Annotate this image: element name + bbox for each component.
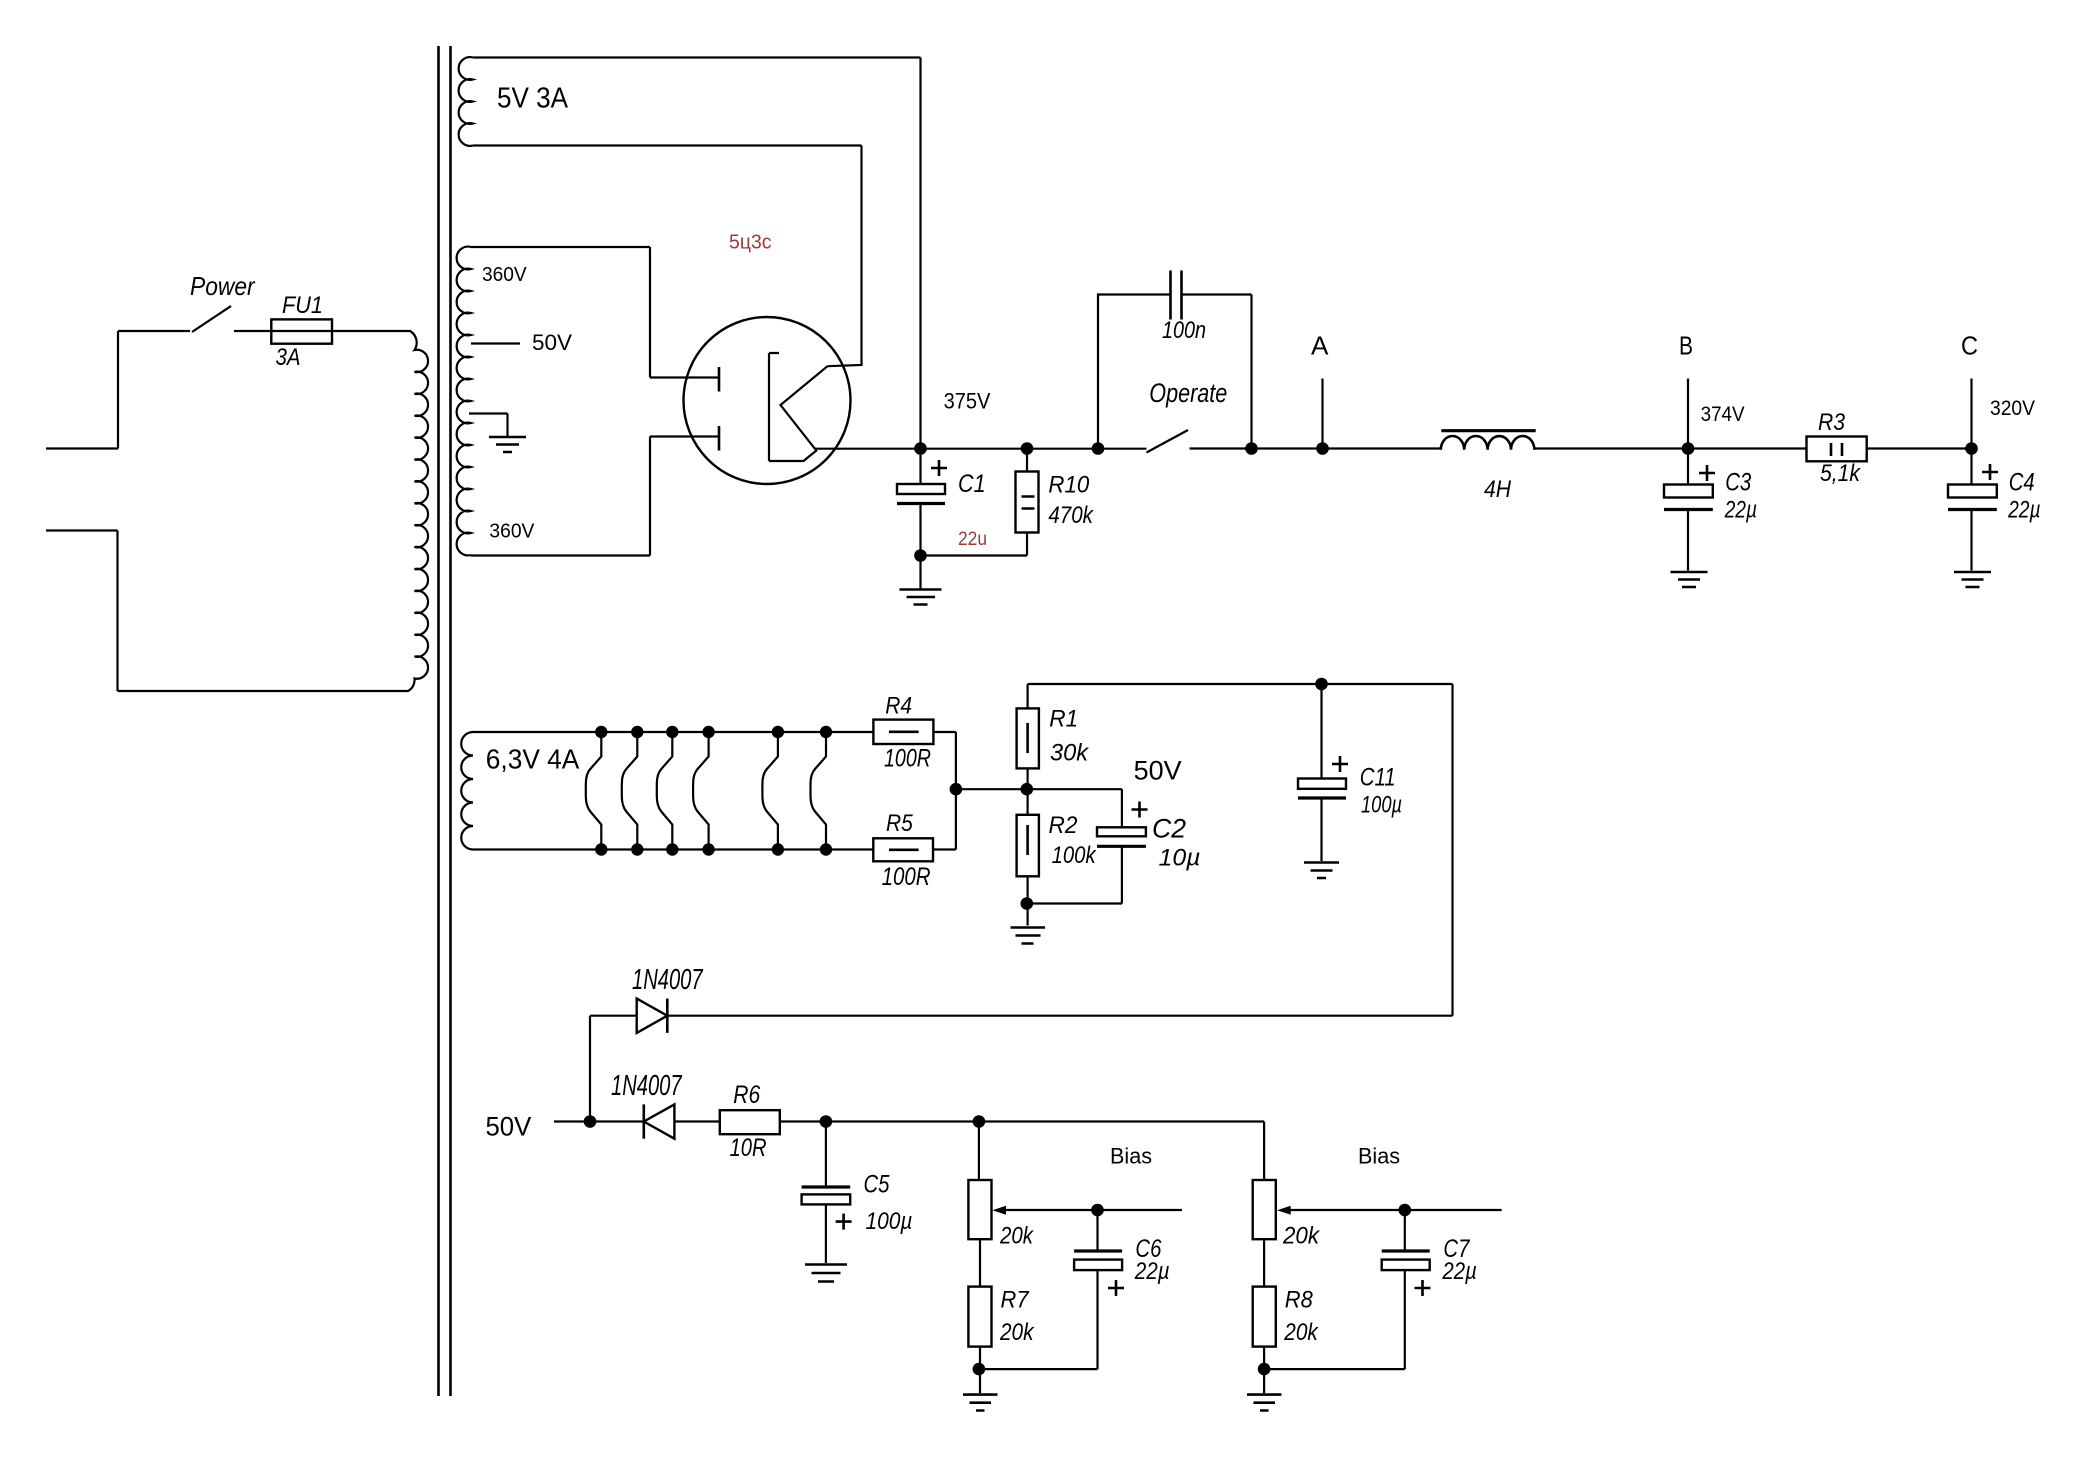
svg-text:50V: 50V <box>532 330 572 355</box>
svg-text:50V: 50V <box>1134 755 1182 785</box>
svg-text:50V: 50V <box>486 1112 532 1142</box>
svg-text:C11: C11 <box>1360 763 1396 791</box>
svg-text:R6: R6 <box>733 1081 760 1109</box>
svg-text:C2: C2 <box>1152 814 1186 844</box>
svg-text:360V: 360V <box>482 264 527 286</box>
svg-text:100R: 100R <box>884 745 931 773</box>
svg-text:5ц3с: 5ц3с <box>729 232 772 254</box>
svg-text:R10: R10 <box>1048 471 1089 498</box>
svg-text:5,1k: 5,1k <box>1820 460 1862 487</box>
svg-text:30k: 30k <box>1050 740 1090 767</box>
svg-text:C4: C4 <box>2009 468 2035 496</box>
svg-text:Bias: Bias <box>1110 1144 1152 1169</box>
svg-text:R7: R7 <box>1001 1287 1031 1314</box>
svg-text:R3: R3 <box>1818 409 1846 436</box>
svg-text:Operate: Operate <box>1149 378 1227 408</box>
svg-text:4H: 4H <box>1484 476 1512 503</box>
svg-text:C: C <box>1961 331 1978 361</box>
svg-text:C5: C5 <box>864 1171 890 1199</box>
svg-text:100k: 100k <box>1052 842 1098 869</box>
svg-text:R2: R2 <box>1049 812 1078 839</box>
svg-text:5V 3A: 5V 3A <box>497 83 568 115</box>
svg-text:Bias: Bias <box>1358 1144 1400 1169</box>
svg-text:22µ: 22µ <box>2007 497 2040 524</box>
svg-text:10R: 10R <box>730 1134 767 1162</box>
svg-text:470k: 470k <box>1048 502 1094 529</box>
svg-text:360V: 360V <box>489 521 535 543</box>
svg-text:3A: 3A <box>276 344 301 371</box>
svg-text:22µ: 22µ <box>1442 1258 1477 1285</box>
svg-text:C3: C3 <box>1725 468 1751 496</box>
svg-text:R4: R4 <box>885 692 912 719</box>
svg-text:1N4007: 1N4007 <box>632 964 704 996</box>
svg-text:FU1: FU1 <box>282 292 323 319</box>
svg-text:22µ: 22µ <box>1724 497 1757 524</box>
svg-text:100n: 100n <box>1162 317 1206 344</box>
svg-text:100µ: 100µ <box>1361 792 1402 819</box>
svg-text:375V: 375V <box>944 388 991 413</box>
svg-text:10µ: 10µ <box>1159 845 1201 872</box>
svg-text:100µ: 100µ <box>866 1208 913 1235</box>
svg-text:320V: 320V <box>1990 397 2035 420</box>
svg-text:B: B <box>1679 331 1693 361</box>
svg-text:6,3V 4A: 6,3V 4A <box>486 744 580 775</box>
svg-text:1N4007: 1N4007 <box>611 1070 683 1102</box>
svg-text:Power: Power <box>190 271 256 301</box>
svg-text:C1: C1 <box>958 470 986 498</box>
svg-text:20k: 20k <box>1282 1223 1321 1250</box>
svg-text:100R: 100R <box>882 863 931 891</box>
svg-text:22µ: 22µ <box>1134 1258 1170 1285</box>
svg-text:A: A <box>1311 330 1329 360</box>
svg-text:374V: 374V <box>1701 403 1745 426</box>
svg-text:22u: 22u <box>958 529 987 550</box>
svg-text:20k: 20k <box>999 1223 1035 1250</box>
svg-text:20k: 20k <box>999 1319 1035 1346</box>
svg-text:R8: R8 <box>1285 1287 1314 1314</box>
svg-text:20k: 20k <box>1283 1319 1319 1346</box>
svg-text:R1: R1 <box>1049 706 1078 733</box>
svg-text:R5: R5 <box>886 810 913 837</box>
